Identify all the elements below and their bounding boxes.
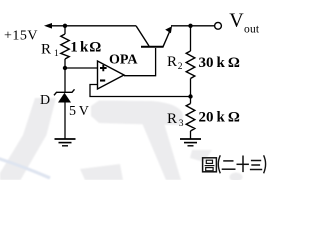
svg-text:R: R xyxy=(167,54,177,70)
wire: R3 bottom to ground xyxy=(190,131,192,139)
svg-text:5 V: 5 V xyxy=(69,104,89,119)
svg-text:1: 1 xyxy=(54,49,59,59)
svg-text:30 k Ω: 30 k Ω xyxy=(199,55,240,71)
svg-text:D: D xyxy=(40,93,50,108)
svg-text:2: 2 xyxy=(178,62,183,72)
svg-text:OPA: OPA xyxy=(109,53,138,68)
wire: R1 bottom to node B xyxy=(64,59,66,92)
op-amp U1 triangle xyxy=(98,61,125,89)
op-amp - input marker xyxy=(100,79,105,81)
node D (emitter rail / R2) xyxy=(188,24,192,28)
svg-text:R: R xyxy=(167,111,177,127)
wire: node B to op-amp + input xyxy=(65,67,98,69)
wire: op-amp output to transistor base xyxy=(124,48,156,76)
wire: R2 bottom to node C xyxy=(190,79,192,97)
watermark gray top band xyxy=(91,101,183,126)
svg-text:+15V: +15V xyxy=(4,29,38,44)
wire: top rail left segment xyxy=(48,25,136,27)
wire: node D to R2 xyxy=(190,26,192,51)
zener diode D triangle xyxy=(58,93,71,103)
terminal circle Vout xyxy=(215,22,222,29)
watermark gray small triangle near caption xyxy=(190,150,212,162)
resistor R1 zigzag xyxy=(61,34,69,59)
wire: top rail right segment xyxy=(171,25,215,27)
watermark gray right descender xyxy=(142,123,181,180)
glyph 二 xyxy=(223,160,233,162)
zener diode D cathode bar xyxy=(54,89,75,95)
transistor Q1 base bar xyxy=(141,46,164,48)
watermark blue arc bottom left xyxy=(0,158,50,178)
wire: zener anode to ground xyxy=(64,103,66,140)
node B (R1 / zener / op-amp + input) xyxy=(63,66,67,70)
transistor Q1 emitter diagonal with arrow xyxy=(163,30,171,47)
caption 圖(二十三) drawn as strokes xyxy=(203,155,266,173)
ground (left) xyxy=(55,139,76,146)
watermark gray blob bottom right xyxy=(230,173,243,182)
glyph ( xyxy=(218,155,220,173)
watermark gray left leg xyxy=(0,98,56,180)
glyph 十 xyxy=(237,163,249,165)
glyph 三 xyxy=(251,160,261,162)
node C (R2 / R3 / feedback) xyxy=(188,94,192,98)
svg-text:V: V xyxy=(229,10,244,32)
glyph 圖 xyxy=(203,158,217,172)
wire: node A to R1 top xyxy=(64,26,66,34)
glyph ) xyxy=(264,155,266,173)
svg-text:out: out xyxy=(244,24,260,36)
arrow head +15V supply xyxy=(44,23,52,29)
resistor R2 zigzag xyxy=(186,51,195,79)
wire: node C to R3 xyxy=(190,97,192,104)
node A (top rail / R1) xyxy=(63,24,67,28)
resistor R3 zigzag xyxy=(186,104,195,132)
svg-text:R: R xyxy=(41,42,51,58)
svg-text:1: 1 xyxy=(70,40,78,56)
ground (right) xyxy=(180,139,201,146)
svg-text:Ω: Ω xyxy=(89,40,101,56)
svg-text:k: k xyxy=(80,40,89,56)
svg-text:3: 3 xyxy=(179,119,184,129)
watermark gray wedge bottom center xyxy=(80,164,123,180)
svg-text:20 k Ω: 20 k Ω xyxy=(199,110,240,126)
wire: op-amp minus input feedback (left, down, right to node C) xyxy=(90,85,191,97)
transistor Q1 collector diagonal xyxy=(136,26,149,46)
op-amp + input marker xyxy=(100,65,107,72)
